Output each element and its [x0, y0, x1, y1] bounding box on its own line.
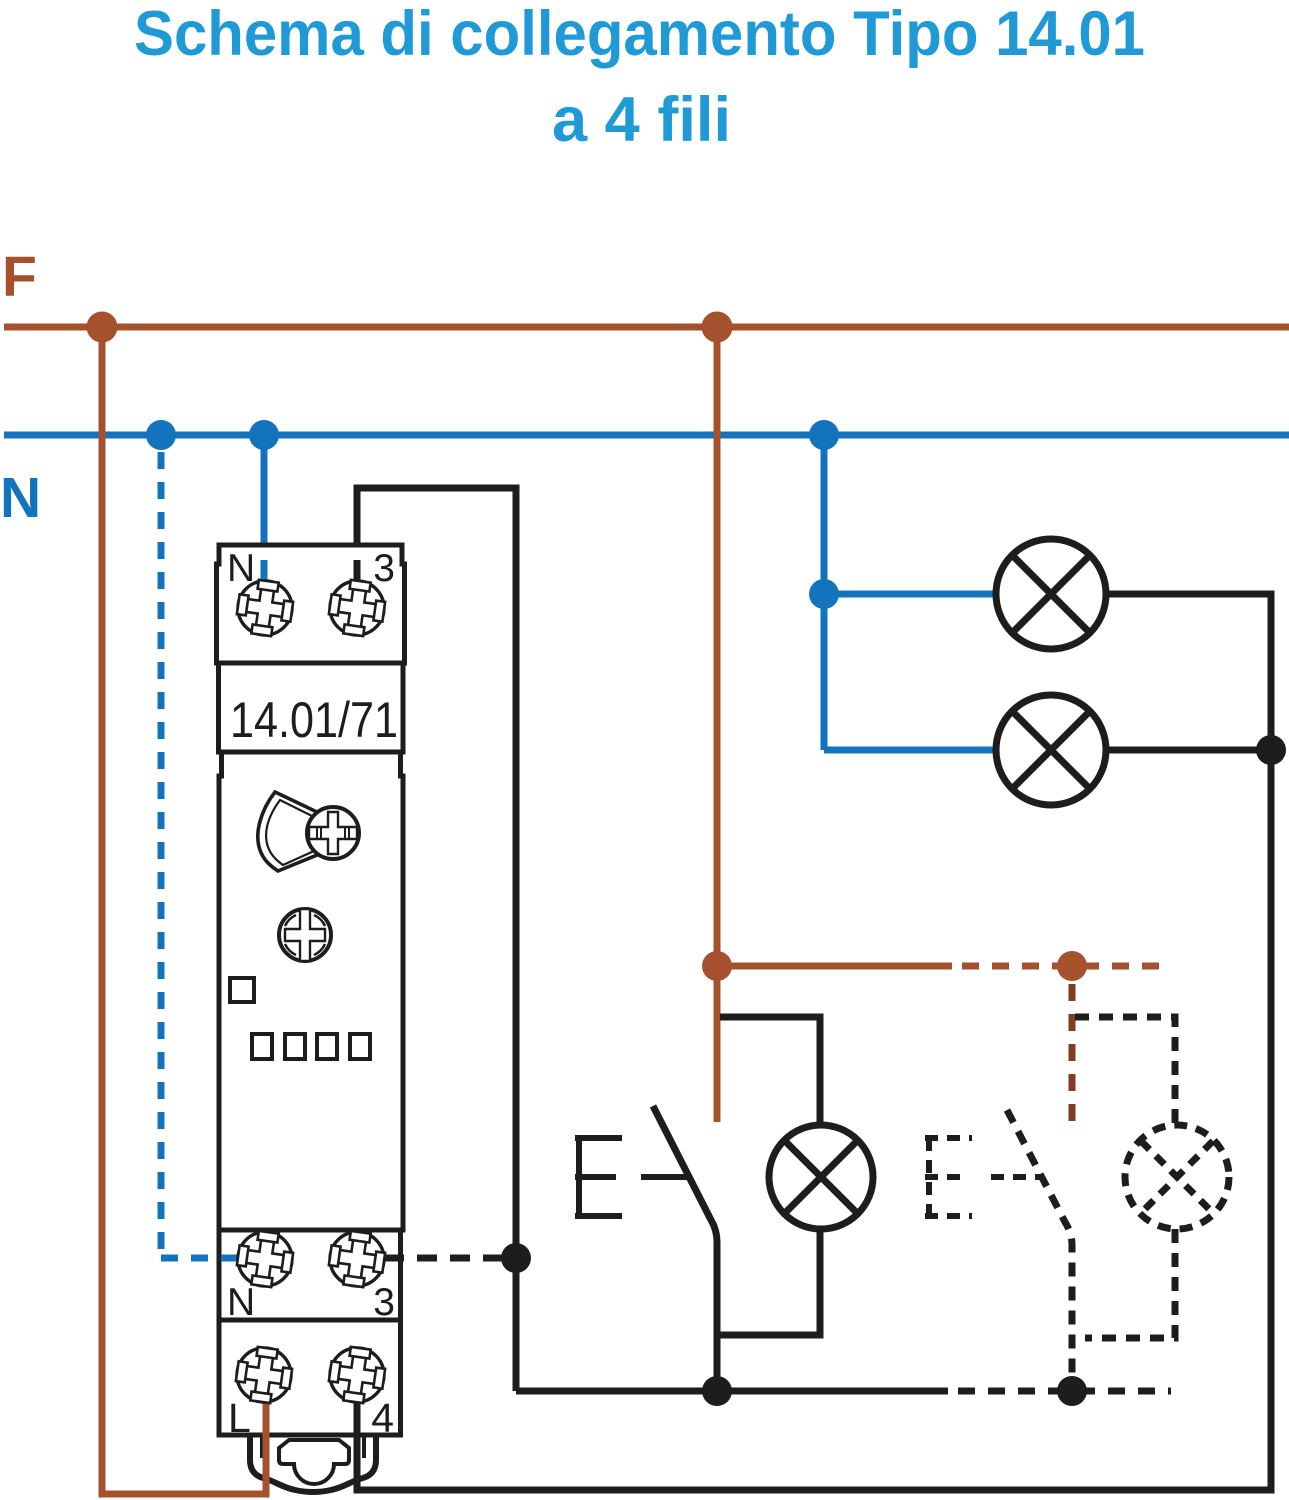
knob wedge inner bevel	[266, 800, 314, 865]
terminal screw N top	[235, 578, 296, 639]
dip square 4	[350, 1034, 370, 1059]
terminal screw N mid	[235, 1229, 296, 1290]
node junction N right	[809, 420, 839, 450]
push-button P1 symbol E	[575, 1138, 622, 1216]
wire brown solid to second button	[717, 963, 952, 970]
wire black dashed return extension	[958, 1388, 1171, 1395]
wire brown into terminal L	[263, 1368, 270, 1494]
push-button P2 dashed lever	[1007, 1110, 1072, 1384]
push-button P2 dashed actuator	[991, 1174, 1040, 1180]
wire blue to terminal N top	[261, 435, 268, 600]
svg-text:3: 3	[373, 1281, 395, 1324]
timer device mid terminal box N 3	[219, 1230, 401, 1320]
DIN clip spring	[279, 1440, 349, 1484]
node junction brown at button	[702, 951, 732, 981]
lamp E2 dashed indicator	[1125, 1125, 1229, 1229]
terminal screw 3 mid	[327, 1229, 388, 1290]
wire blue dashed into terminal N mid	[161, 1255, 240, 1262]
wire brown dashed down to second button	[1069, 984, 1076, 1123]
wire N neutral line	[4, 432, 1289, 439]
indicator small square	[230, 978, 254, 1002]
lamp L1	[996, 539, 1106, 649]
face screw	[279, 909, 331, 961]
push-button P1 actuator	[641, 1174, 690, 1180]
timer device body	[219, 752, 403, 1230]
wire black dashed lamp E2 branch	[1075, 1017, 1175, 1338]
wire brown branch to push-button	[714, 327, 721, 1122]
dip square 1	[252, 1034, 272, 1059]
wire black buttons return line	[516, 1388, 948, 1395]
wire blue dashed to terminal N mid	[158, 452, 165, 1262]
DIN clip hook lines	[262, 1437, 364, 1458]
terminal screw 3 top	[327, 578, 388, 639]
wire brown from F down-left to terminal L	[102, 327, 266, 1494]
node junction N dashed	[146, 420, 176, 450]
wire black lamp1 to right rail	[357, 594, 1271, 1490]
node junction N top	[249, 420, 279, 450]
node junction F left	[87, 312, 118, 343]
wire black into terminal 4	[354, 1368, 361, 1490]
timer device 14.01 top terminal box	[217, 545, 405, 663]
wire black dashed from terminal 3 mid	[384, 1255, 516, 1262]
node junction dashed button bottom	[1057, 1376, 1087, 1406]
wire black lamp2 to right rail	[1107, 747, 1271, 754]
node junction on right rail	[501, 1243, 531, 1273]
knob screw	[307, 807, 359, 859]
wire black into terminal 3 top	[354, 560, 361, 600]
svg-text:14.01/71: 14.01/71	[230, 692, 398, 748]
push-button P2 dashed symbol E	[925, 1138, 972, 1216]
wire blue into terminal N top	[261, 560, 268, 600]
wire black terminal 3 up and down right side	[357, 488, 516, 1391]
wire brown dashed extension	[962, 963, 1171, 970]
dip square 3	[317, 1034, 337, 1059]
svg-text:L: L	[228, 1395, 251, 1441]
wire blue to lamps	[824, 435, 995, 750]
svg-text:F: F	[2, 245, 37, 309]
svg-text:N: N	[0, 466, 41, 530]
svg-text:Schema di collegamento Tipo 14: Schema di collegamento Tipo 14.01	[134, 0, 1145, 69]
svg-text:N: N	[227, 547, 255, 590]
svg-text:3: 3	[373, 547, 395, 590]
lamp L2	[996, 695, 1106, 805]
wire F phase line	[4, 324, 1289, 331]
svg-text:4: 4	[371, 1395, 394, 1441]
lamp E1 indicator	[769, 1125, 873, 1229]
timer device bottom terminal box L 4	[219, 1320, 401, 1435]
timer device label box	[219, 663, 404, 752]
node junction F right	[702, 312, 733, 343]
svg-text:N: N	[227, 1281, 255, 1324]
terminal screw L	[234, 1345, 295, 1406]
node junction brown dashed	[1057, 951, 1087, 981]
wire black lamp E1 branch	[717, 1017, 820, 1335]
dip square 2	[285, 1034, 305, 1059]
node junction black rail	[1256, 735, 1286, 765]
push-button P1 lever	[653, 1106, 717, 1391]
svg-text:a 4 fili: a 4 fili	[552, 85, 731, 155]
knob wedge	[258, 792, 317, 871]
terminal screw 4	[327, 1345, 388, 1406]
node junction button bottom	[702, 1376, 732, 1406]
node junction blue lamps	[809, 579, 839, 609]
DIN clip outer	[250, 1437, 376, 1492]
